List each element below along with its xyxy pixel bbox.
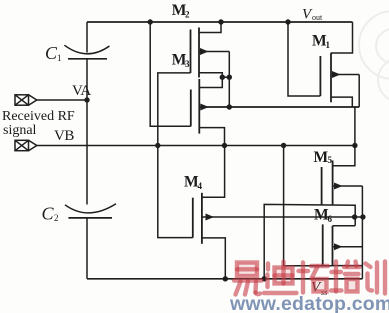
svg-text:C: C <box>42 204 55 224</box>
svg-text:out: out <box>312 13 323 22</box>
node dot top rail / M2 drain <box>218 19 223 24</box>
svg-text:3: 3 <box>185 59 190 69</box>
svg-text:signal: signal <box>3 123 37 138</box>
transistor M2 <box>191 22 233 107</box>
node dot VB / M2-M4 gate line <box>155 143 160 148</box>
node dot VA <box>84 97 89 102</box>
antenna VB <box>15 140 37 150</box>
wire VB rail <box>37 145 355 147</box>
node dot bottom rail / M4 source branch <box>223 276 228 281</box>
svg-text:6: 6 <box>328 214 333 224</box>
transistor M3 <box>191 79 359 146</box>
label M1 <box>312 33 331 51</box>
svg-text:Received RF: Received RF <box>2 109 75 124</box>
wire M6 gate to VB <box>284 146 333 266</box>
watermark red text <box>234 262 385 295</box>
wire node to VB and M5 drain <box>333 107 355 166</box>
label M5 <box>314 149 333 166</box>
node dot VB / M5 drain <box>352 143 357 148</box>
wire left vertical upper (top rail to C1) <box>86 22 88 53</box>
label M6 <box>314 207 333 225</box>
wire bottom rail (Vss net) <box>87 278 362 280</box>
label C2 <box>42 204 59 224</box>
node dot top rail / M1 gate branch <box>285 19 290 24</box>
label M4 <box>184 174 203 192</box>
svg-text:www.edatop.com: www.edatop.com <box>229 293 389 313</box>
label C1 <box>45 43 62 63</box>
label Vss <box>311 280 327 298</box>
wire C1 to VA and down to C2 <box>86 59 88 205</box>
wire M1 gate to top rail <box>288 22 320 96</box>
transistor M4 <box>193 146 363 279</box>
antenna VA <box>15 95 37 105</box>
node dot VB / M6 gate branch <box>281 143 286 148</box>
node dot bottom rail / M5 gate line A <box>262 276 267 281</box>
transistor M5 <box>322 161 363 279</box>
watermark gray ring upper <box>359 11 389 102</box>
node dot top rail / M3 gate branch <box>148 19 153 24</box>
svg-text:1: 1 <box>326 40 331 50</box>
wire line A M5 gate to bottom rail and M6 drain <box>264 204 355 278</box>
wire top rail (Vout net) <box>87 21 353 23</box>
wire C2 to bottom rail <box>86 218 88 279</box>
label Vout <box>302 7 323 23</box>
wire M3 gate to top rail <box>150 22 191 126</box>
node dot M4 source / line A vertical <box>352 214 357 219</box>
node dot VB / M3 source M4 drain <box>222 143 227 148</box>
wire VA <box>37 99 87 101</box>
wire M2 gate to VB to M4 gate <box>158 73 193 238</box>
transistor M6 <box>323 224 363 266</box>
node dot M4 source / M5 source vertical <box>360 214 365 219</box>
svg-text:2: 2 <box>54 213 59 223</box>
capacitor C2 <box>65 204 116 213</box>
svg-text:M: M <box>314 149 329 166</box>
transistor M1 <box>320 22 359 107</box>
capacitor C1 <box>64 45 109 54</box>
svg-text:VB: VB <box>54 128 74 144</box>
svg-text:2: 2 <box>185 10 190 20</box>
svg-text:1: 1 <box>57 53 62 63</box>
wire node line M1 M3 sources <box>199 106 359 108</box>
svg-text:VA: VA <box>72 83 91 99</box>
svg-text:5: 5 <box>328 155 333 165</box>
label Received RF signal <box>2 109 75 138</box>
label M2 <box>172 2 190 20</box>
label M3 <box>172 52 190 70</box>
svg-text:4: 4 <box>198 181 203 191</box>
